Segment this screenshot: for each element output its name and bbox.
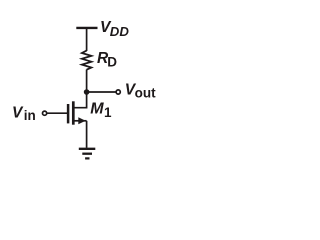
svg-text:out: out [135,85,156,100]
label RD [97,50,117,70]
gate bar [67,104,70,123]
label M1 [90,101,112,120]
wire drain [74,92,87,108]
resistor RD [82,51,92,70]
svg-text:D: D [107,55,117,70]
svg-text:1: 1 [104,105,112,120]
wire source to ground [86,121,88,148]
input terminal circle [43,111,47,115]
source wire [74,120,87,122]
svg-text:M: M [90,101,104,118]
output terminal circle [116,90,120,94]
label Vout [125,82,156,101]
label VDD [100,19,129,39]
wire gate input [47,112,67,114]
svg-text:in: in [24,108,36,123]
svg-text:V: V [12,104,24,121]
VDD supply bar [76,27,97,29]
wire output tap [87,91,116,93]
wire VDD bar to resistor [86,28,88,51]
svg-text:DD: DD [110,24,130,39]
source arrow [78,117,85,124]
ground [79,149,96,159]
wire resistor to output node [86,70,88,93]
transistor M1 [68,101,87,124]
node output junction dot [84,89,90,95]
label Vin [12,104,36,123]
channel bar [72,101,75,124]
